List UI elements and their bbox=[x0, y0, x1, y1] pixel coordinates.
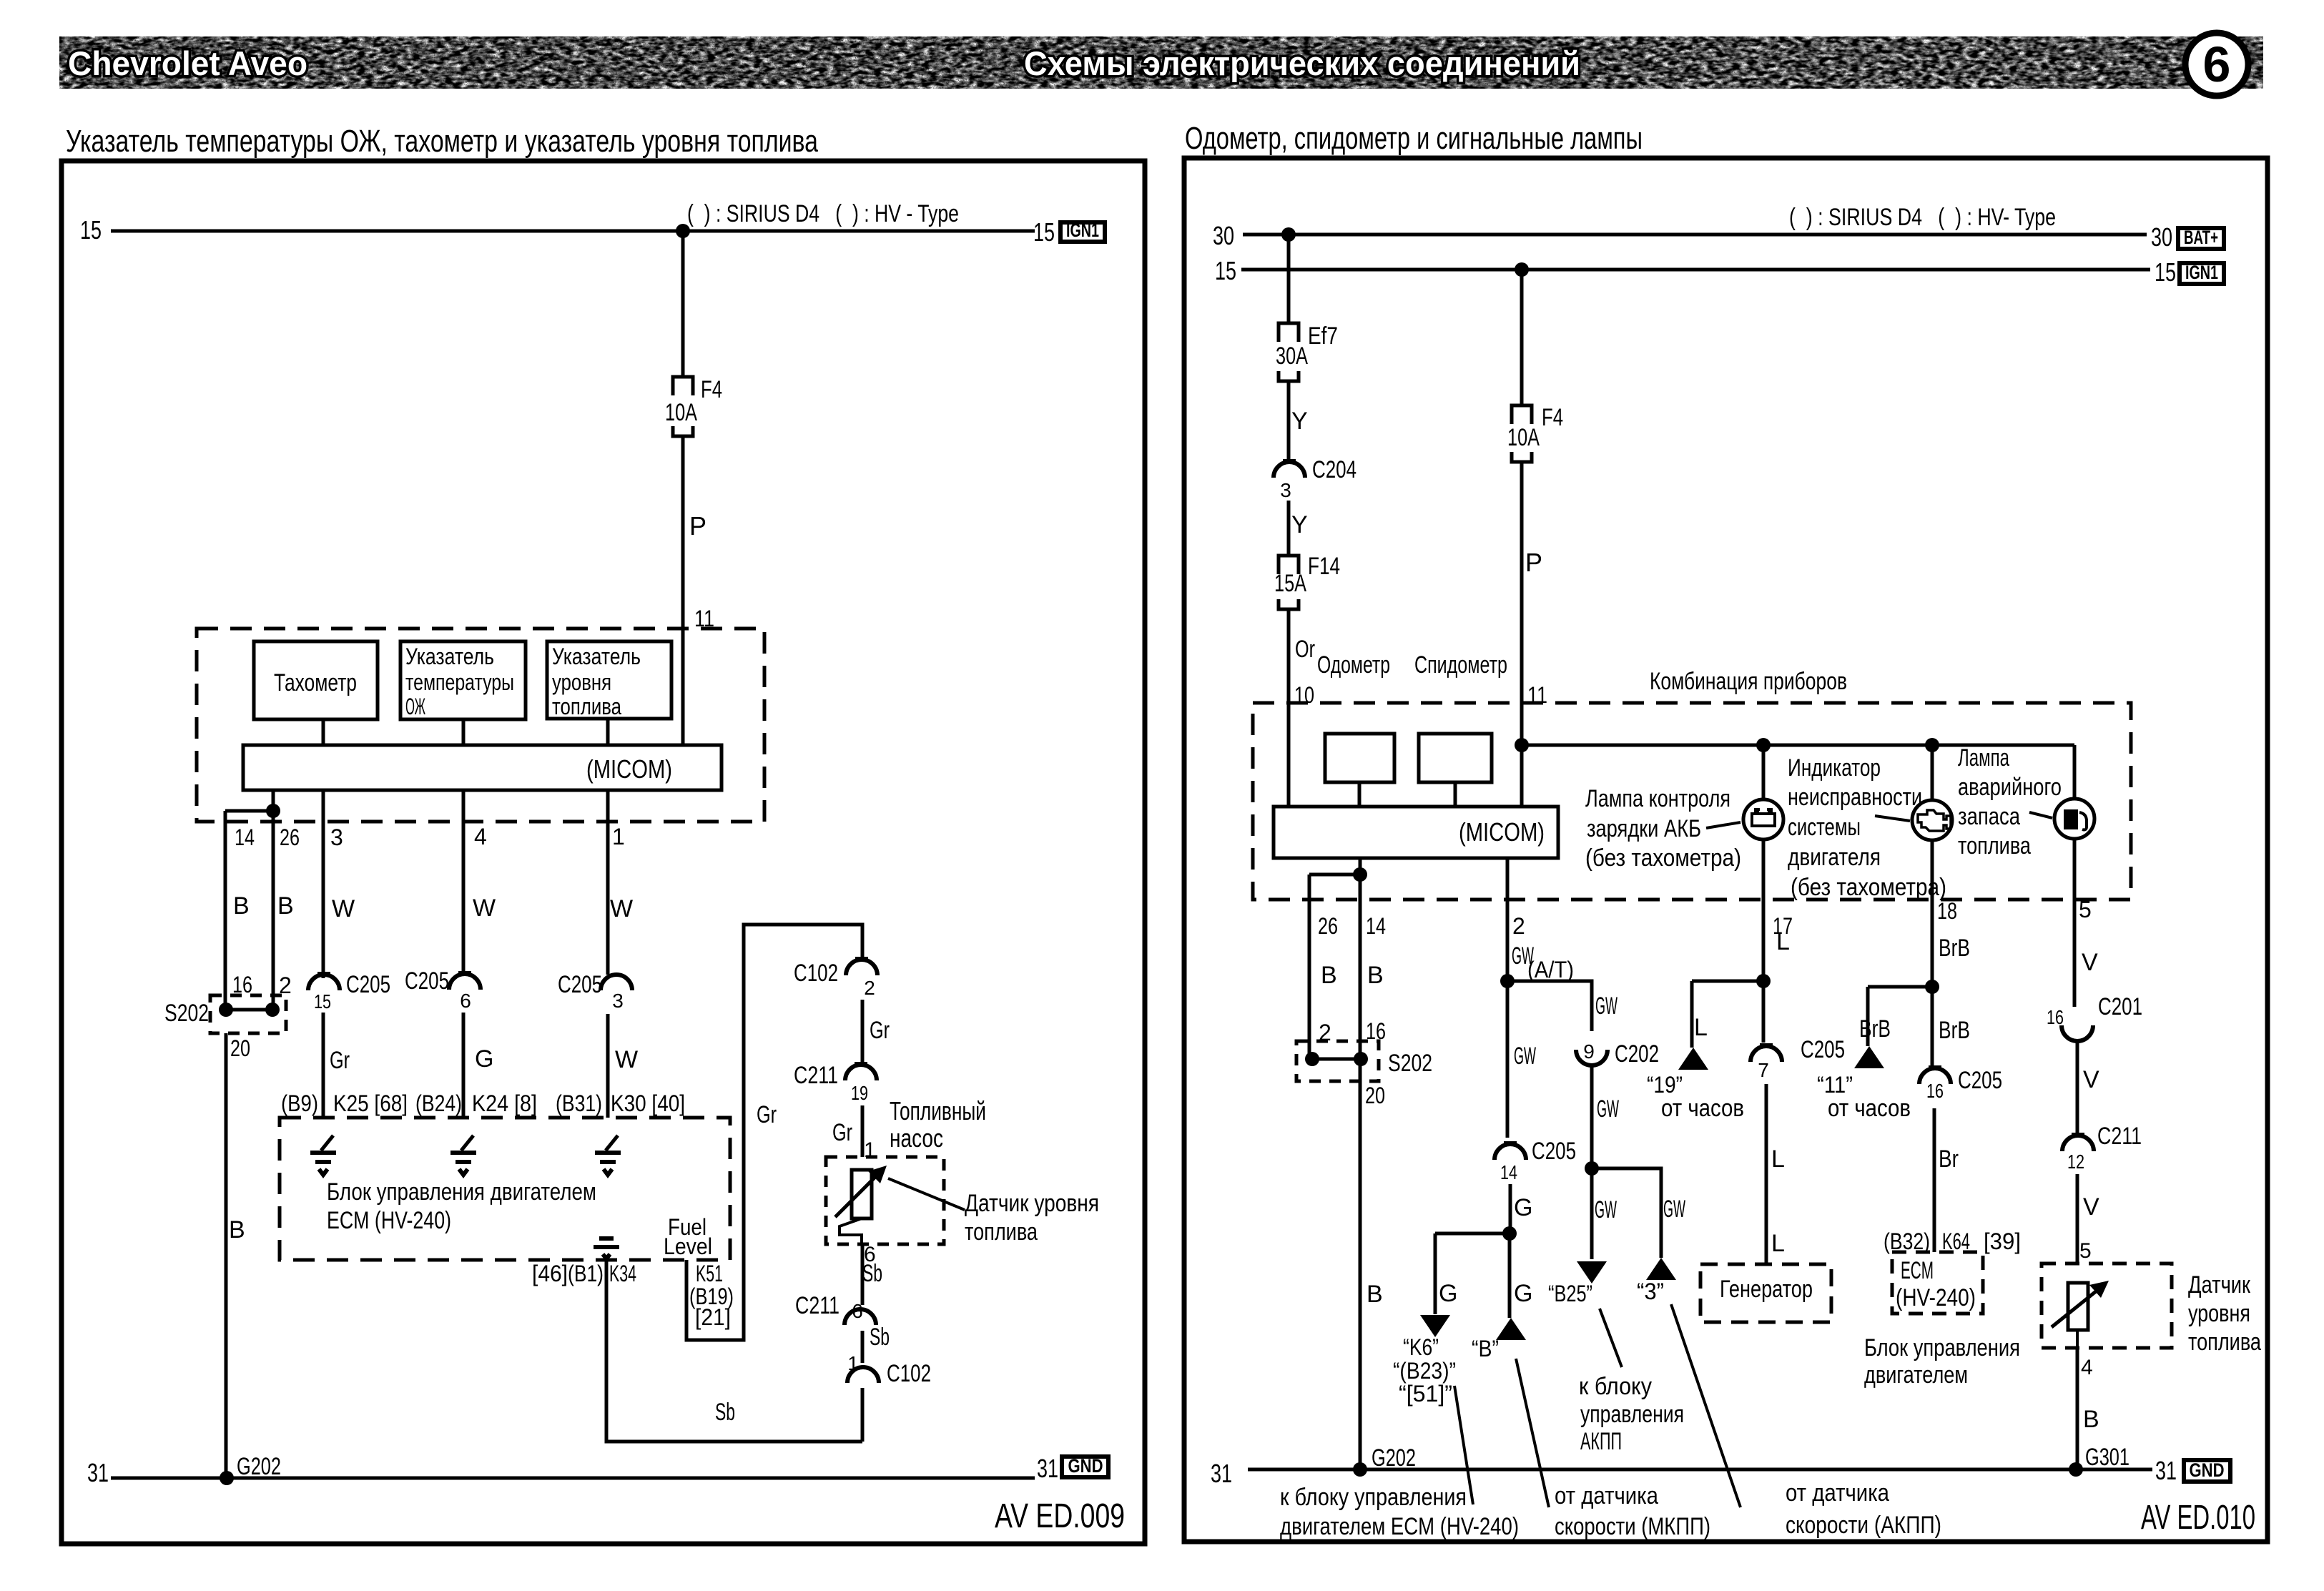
connector C205 pin 6 bbox=[458, 971, 471, 974]
wire micom pin3 bbox=[322, 790, 325, 978]
svg-text:IGN1: IGN1 bbox=[2185, 262, 2218, 283]
connector C205 pin 16 bbox=[1929, 1065, 1941, 1068]
ground node G202 bbox=[220, 1471, 234, 1485]
connector C202 pin 9 bbox=[1576, 1050, 1607, 1065]
fuel sender dashed box right bbox=[2042, 1264, 2172, 1348]
svg-text:двигателя: двигателя bbox=[1788, 844, 1881, 871]
svg-text:31: 31 bbox=[1211, 1459, 1232, 1488]
wire pin 14 down bbox=[224, 811, 227, 1009]
wire to fuel lamp bbox=[2073, 745, 2077, 799]
wire pin 26 right bbox=[1308, 875, 1311, 1059]
right panel border bbox=[1184, 158, 2268, 1542]
wire G to ECM bbox=[462, 1013, 466, 1118]
ground K25 bbox=[321, 1136, 333, 1151]
connector C205 pin 7 bbox=[1760, 1043, 1773, 1046]
svg-text:G: G bbox=[1514, 1194, 1532, 1221]
svg-text:6: 6 bbox=[460, 990, 471, 1012]
svg-text:управления: управления bbox=[1580, 1401, 1684, 1428]
odometer box bbox=[1325, 734, 1394, 782]
svg-text:12: 12 bbox=[2067, 1151, 2084, 1173]
wire B to G301 bbox=[2076, 1348, 2079, 1469]
wire Or to cluster bbox=[1287, 609, 1291, 807]
svg-text:(без тахометра): (без тахометра) bbox=[1585, 844, 1741, 872]
wire Sb between connectors bbox=[861, 1331, 865, 1363]
wire fuel to micom bbox=[606, 719, 610, 745]
svg-text:C205: C205 bbox=[1532, 1138, 1576, 1165]
wire BrB to clock 11 bbox=[1866, 987, 1870, 1046]
jog to pin 26 right bbox=[1309, 873, 1360, 877]
svg-text:5: 5 bbox=[2079, 1239, 2092, 1263]
svg-text:GW: GW bbox=[1663, 1196, 1685, 1223]
connector C211 pin 6 bbox=[845, 1309, 876, 1325]
wire Gr to ECM bbox=[322, 1013, 325, 1118]
svg-text:уровня: уровня bbox=[2188, 1300, 2250, 1327]
svg-text:насос: насос bbox=[890, 1123, 943, 1153]
MICOM box right bbox=[1274, 807, 1558, 858]
svg-text:7: 7 bbox=[1758, 1059, 1769, 1081]
callout line 3 to AT speed sensor caption bbox=[1671, 1304, 1740, 1507]
wire C204 to F14 bbox=[1287, 501, 1291, 556]
fuse Ef7 30A bbox=[1279, 323, 1299, 342]
ground node G202 right bbox=[1353, 1462, 1367, 1477]
svg-text:скорости (АКПП): скорости (АКПП) bbox=[1786, 1512, 1941, 1539]
svg-text:3: 3 bbox=[612, 990, 624, 1012]
svg-text:Тахометр: Тахометр bbox=[274, 669, 357, 696]
svg-text:к блоку: к блоку bbox=[1579, 1373, 1652, 1400]
page number circle 6 bbox=[2185, 33, 2248, 96]
wire GW branch right bbox=[1507, 981, 1592, 1031]
svg-text:Топливный: Топливный bbox=[890, 1096, 986, 1125]
svg-text:( ) : SIRIUS D4 ( ) : HV-: ( ) : SIRIUS D4 ( ) : HV- Type bbox=[1789, 204, 2056, 231]
svg-text:Блок управления двигателем: Блок управления двигателем bbox=[327, 1178, 596, 1206]
wire Sb to return bbox=[861, 1388, 865, 1442]
wire micom pin4 bbox=[462, 790, 466, 974]
svg-text:L: L bbox=[1771, 1146, 1785, 1173]
svg-text:2: 2 bbox=[864, 977, 875, 999]
svg-text:от датчика: от датчика bbox=[1555, 1482, 1658, 1509]
fuse F14 15A bbox=[1279, 556, 1299, 574]
svg-text:C205: C205 bbox=[405, 967, 449, 995]
wire Gr to sender bbox=[861, 1105, 865, 1157]
svg-text:Комбинация приборов: Комбинация приборов bbox=[1650, 668, 1847, 695]
svg-text:“B25”: “B25” bbox=[1548, 1281, 1592, 1306]
wire odometer to micom bbox=[1358, 782, 1362, 807]
svg-text:30A: 30A bbox=[1276, 343, 1308, 370]
svg-text:16: 16 bbox=[232, 972, 252, 998]
wire BrB to C205-16 bbox=[1931, 987, 1934, 1070]
svg-text:Gr: Gr bbox=[870, 1017, 890, 1044]
svg-text:GND: GND bbox=[1068, 1455, 1103, 1477]
svg-text:V: V bbox=[2083, 1066, 2099, 1093]
junction micom out bbox=[266, 804, 280, 818]
svg-text:G301: G301 bbox=[2085, 1444, 2129, 1471]
arrow from MT speed sensor bbox=[1496, 1318, 1526, 1340]
svg-text:26: 26 bbox=[280, 824, 300, 850]
svg-text:C211: C211 bbox=[794, 1062, 838, 1089]
fuse F4 right 10A bbox=[1512, 405, 1532, 424]
svg-text:C205: C205 bbox=[1958, 1067, 2002, 1094]
svg-text:16: 16 bbox=[1926, 1080, 1944, 1102]
svg-text:( ) : SIRIUS D4 ( ) : HV -: ( ) : SIRIUS D4 ( ) : HV - Type bbox=[687, 200, 959, 227]
svg-text:L: L bbox=[1771, 1230, 1785, 1257]
svg-text:ОЖ: ОЖ bbox=[405, 694, 425, 719]
svg-text:GW: GW bbox=[1595, 992, 1618, 1020]
svg-text:аварийного: аварийного bbox=[1958, 774, 2062, 801]
fuel sender dashed box bbox=[826, 1157, 944, 1244]
wire G from MT speed sensor bbox=[1508, 1233, 1512, 1318]
wire bus30 to Ef7 bbox=[1287, 235, 1291, 323]
svg-text:14: 14 bbox=[1500, 1161, 1517, 1183]
wire W to ECM bbox=[606, 1014, 610, 1118]
wire Ef7 to C204 bbox=[1287, 381, 1291, 462]
svg-text:C205: C205 bbox=[346, 971, 390, 998]
wire L to generator bbox=[1765, 1084, 1768, 1264]
svg-text:Gr: Gr bbox=[832, 1119, 852, 1146]
svg-text:GW: GW bbox=[1595, 1196, 1617, 1223]
junction on bus 15 right bbox=[1515, 262, 1529, 277]
svg-text:6: 6 bbox=[852, 1300, 863, 1322]
wire Gr between connectors bbox=[861, 1000, 865, 1063]
svg-text:Датчик: Датчик bbox=[2188, 1271, 2251, 1299]
svg-text:5: 5 bbox=[2079, 897, 2092, 922]
svg-text:(B9): (B9) bbox=[281, 1090, 318, 1116]
svg-text:F4: F4 bbox=[701, 376, 722, 403]
svg-text:Y: Y bbox=[1291, 408, 1308, 435]
ground node G301 bbox=[2069, 1462, 2083, 1477]
svg-text:B: B bbox=[1321, 962, 1337, 989]
wire P right bbox=[1520, 462, 1524, 807]
svg-text:топлива: топлива bbox=[2188, 1329, 2261, 1356]
svg-text:C102: C102 bbox=[794, 960, 838, 987]
svg-text:18: 18 bbox=[1937, 898, 1957, 924]
jog G left bbox=[1435, 1232, 1510, 1236]
connector C205 pin 3 bbox=[601, 975, 632, 990]
svg-text:2: 2 bbox=[279, 972, 292, 998]
svg-text:W: W bbox=[610, 895, 633, 922]
junction on bus 30 bbox=[1281, 227, 1296, 242]
svg-text:Одометр: Одометр bbox=[1317, 651, 1390, 679]
svg-text:W: W bbox=[473, 895, 496, 922]
svg-text:Индикатор: Индикатор bbox=[1788, 754, 1881, 782]
svg-text:S202: S202 bbox=[1388, 1050, 1432, 1077]
junction L bbox=[1756, 974, 1771, 988]
svg-text:Chevrolet Aveo: Chevrolet Aveo bbox=[68, 44, 307, 82]
S202 right bridge bbox=[1312, 1058, 1361, 1061]
svg-text:L: L bbox=[1776, 928, 1790, 955]
svg-text:G: G bbox=[475, 1045, 493, 1073]
svg-text:(HV-240): (HV-240) bbox=[1896, 1284, 1976, 1311]
svg-text:10A: 10A bbox=[665, 399, 697, 426]
svg-text:Sb: Sb bbox=[862, 1260, 882, 1287]
wire to MIL lamp bbox=[1931, 745, 1934, 800]
svg-text:15: 15 bbox=[1215, 256, 1236, 285]
svg-text:19: 19 bbox=[851, 1082, 868, 1104]
wire jog to pin 14 bbox=[225, 809, 273, 813]
svg-text:[21]: [21] bbox=[695, 1304, 731, 1330]
svg-text:Or: Or bbox=[1295, 636, 1315, 663]
svg-text:3: 3 bbox=[1280, 479, 1291, 501]
svg-text:BAT+: BAT+ bbox=[2184, 227, 2218, 248]
svg-text:C102: C102 bbox=[887, 1360, 931, 1387]
svg-text:Спидометр: Спидометр bbox=[1414, 651, 1507, 679]
svg-text:20: 20 bbox=[230, 1035, 250, 1061]
svg-text:(MICOM): (MICOM) bbox=[1459, 817, 1545, 847]
svg-text:15: 15 bbox=[80, 215, 102, 245]
svg-text:температуры: температуры bbox=[405, 669, 514, 695]
svg-text:[39]: [39] bbox=[1984, 1228, 2021, 1254]
svg-text:14: 14 bbox=[235, 824, 255, 850]
svg-text:26: 26 bbox=[1318, 913, 1338, 939]
wire pin 14 right long bbox=[1359, 858, 1362, 1469]
svg-text:W: W bbox=[332, 895, 355, 922]
svg-text:C202: C202 bbox=[1615, 1040, 1659, 1068]
wire pin 18 BrB bbox=[1931, 841, 1934, 987]
junction GW bbox=[1500, 974, 1515, 988]
wire GW to TCM bbox=[1590, 1168, 1594, 1259]
bus 31 (right panel) bbox=[1248, 1468, 2152, 1472]
header band bbox=[59, 36, 2263, 89]
BAT+ tag bbox=[2178, 228, 2224, 249]
MICOM box bbox=[243, 745, 722, 790]
svg-text:топлива: топлива bbox=[1958, 832, 2031, 859]
GND tag right bbox=[2184, 1460, 2230, 1482]
svg-text:3: 3 bbox=[330, 824, 343, 850]
junction G split bbox=[1502, 1226, 1517, 1241]
fuel sender resistor right bbox=[2068, 1283, 2088, 1330]
svg-text:1: 1 bbox=[847, 1352, 859, 1374]
svg-text:IGN1: IGN1 bbox=[1066, 220, 1099, 241]
svg-text:16: 16 bbox=[2047, 1006, 2064, 1028]
svg-text:K30 [40]: K30 [40] bbox=[611, 1090, 685, 1116]
svg-text:15: 15 bbox=[1033, 217, 1055, 247]
connector C201 pin 16 bbox=[2062, 1025, 2093, 1041]
svg-text:S202: S202 bbox=[164, 1000, 209, 1027]
wire Sb from sender bbox=[861, 1244, 865, 1305]
svg-text:B: B bbox=[229, 1216, 245, 1243]
svg-text:“11”: “11” bbox=[1817, 1072, 1853, 1098]
svg-text:Указатель: Указатель bbox=[552, 644, 641, 669]
svg-text:Схемы электрических соединений: Схемы электрических соединений bbox=[1024, 44, 1580, 82]
junction lamp feed bbox=[1515, 738, 1529, 752]
S202 right node bbox=[265, 1003, 280, 1017]
junction lamp 2 bbox=[1925, 738, 1939, 752]
svg-text:G202: G202 bbox=[237, 1453, 281, 1480]
svg-text:Gr: Gr bbox=[330, 1047, 350, 1074]
arrow from AT speed sensor bbox=[1646, 1258, 1676, 1280]
svg-text:31: 31 bbox=[87, 1458, 109, 1487]
svg-text:15: 15 bbox=[314, 990, 331, 1013]
wire L to clock 19 bbox=[1690, 981, 1694, 1048]
jog BrB left bbox=[1868, 985, 1932, 989]
svg-text:(B31): (B31) bbox=[556, 1090, 602, 1116]
svg-text:Лампа контроля: Лампа контроля bbox=[1585, 785, 1730, 812]
connector C102 pin 2 bbox=[855, 957, 868, 960]
connector C204 pin 3 bbox=[1283, 459, 1296, 462]
svg-text:“(B23)”: “(B23)” bbox=[1393, 1358, 1456, 1384]
svg-text:“B”: “B” bbox=[1472, 1336, 1499, 1361]
speedometer box bbox=[1419, 734, 1492, 782]
svg-text:L: L bbox=[1694, 1014, 1708, 1041]
wire K51 to fuel pump bbox=[686, 925, 862, 1340]
engine malfunction lamp bbox=[1912, 800, 1952, 840]
svg-text:топлива: топлива bbox=[552, 694, 621, 719]
svg-text:C205: C205 bbox=[1801, 1036, 1845, 1063]
connector C102 pin 1 bbox=[847, 1367, 879, 1383]
svg-text:(B1): (B1) bbox=[568, 1261, 604, 1286]
wire V to sender right bbox=[2076, 1174, 2079, 1264]
svg-text:AV ED.010: AV ED.010 bbox=[2141, 1499, 2255, 1537]
bus 30 bbox=[1243, 233, 2147, 237]
svg-text:C205: C205 bbox=[558, 971, 602, 998]
wire G to ECM K6 bbox=[1434, 1233, 1437, 1314]
svg-text:30: 30 bbox=[1213, 221, 1234, 250]
arrow from clock 11 bbox=[1854, 1046, 1884, 1068]
wire to battery lamp bbox=[1762, 745, 1766, 799]
wire bus15 to F4 right bbox=[1520, 270, 1524, 405]
svg-text:системы: системы bbox=[1788, 814, 1861, 841]
svg-text:(без тахометра): (без тахометра) bbox=[1791, 874, 1946, 901]
arrow from clock 19 bbox=[1678, 1048, 1708, 1070]
connector C211 pin 12 bbox=[2072, 1133, 2084, 1136]
svg-text:скорости (МКПП): скорости (МКПП) bbox=[1555, 1513, 1710, 1540]
low fuel lamp bbox=[2054, 799, 2094, 839]
svg-text:31: 31 bbox=[1037, 1454, 1058, 1483]
svg-text:10A: 10A bbox=[1507, 424, 1540, 451]
wire GW down to C205-14 bbox=[1506, 981, 1510, 1138]
svg-text:9: 9 bbox=[1583, 1040, 1595, 1063]
svg-text:топлива: топлива bbox=[965, 1218, 1038, 1246]
svg-text:F14: F14 bbox=[1308, 553, 1340, 580]
wire bus15 to fuse F4 bbox=[681, 231, 685, 377]
svg-text:C201: C201 bbox=[2098, 993, 2142, 1020]
svg-text:Ef7: Ef7 bbox=[1308, 322, 1338, 350]
arrow to TCM B25 bbox=[1577, 1261, 1607, 1284]
svg-text:“[51]”: “[51]” bbox=[1399, 1381, 1452, 1407]
ECM dashed box bbox=[280, 1118, 730, 1260]
svg-text:запаса: запаса bbox=[1958, 803, 2020, 830]
S202 right node b bbox=[1354, 1052, 1368, 1066]
svg-text:P: P bbox=[689, 511, 706, 541]
svg-text:2: 2 bbox=[1512, 913, 1525, 939]
wire L to C205-7 bbox=[1762, 981, 1766, 1043]
svg-text:P: P bbox=[1525, 548, 1542, 577]
battery charge lamp bbox=[1743, 799, 1783, 839]
svg-text:неисправности: неисправности bbox=[1788, 784, 1922, 811]
svg-text:Sb: Sb bbox=[870, 1324, 890, 1351]
instrument cluster dashed box right bbox=[1253, 703, 2131, 900]
S202 bridge wire bbox=[226, 1008, 272, 1012]
svg-text:Sb: Sb bbox=[715, 1399, 735, 1426]
svg-text:V: V bbox=[2082, 949, 2098, 976]
ground K34 fuel level bbox=[594, 1238, 619, 1258]
wire GW below C202 bbox=[1590, 1065, 1594, 1168]
svg-text:B: B bbox=[277, 892, 294, 920]
bus 31 (left panel) bbox=[111, 1477, 1035, 1480]
wire K34/Sb return bbox=[606, 1260, 862, 1442]
wire micom pin26 bbox=[272, 790, 275, 1010]
svg-text:K34: K34 bbox=[609, 1261, 636, 1286]
svg-text:(MICOM): (MICOM) bbox=[586, 754, 672, 784]
coolant temp gauge box bbox=[400, 641, 526, 719]
callout line B23 to ECM caption bbox=[1454, 1386, 1473, 1504]
svg-text:двигателем: двигателем bbox=[1864, 1361, 1968, 1389]
svg-text:Указатель: Указатель bbox=[405, 644, 494, 669]
svg-text:Датчик уровня: Датчик уровня bbox=[965, 1190, 1099, 1217]
svg-text:Лампа: Лампа bbox=[1958, 744, 2009, 772]
svg-text:уровня: уровня bbox=[552, 669, 611, 695]
left panel border bbox=[61, 161, 1145, 1544]
junction on bus 15 bbox=[676, 224, 690, 238]
svg-text:ECM (HV-240): ECM (HV-240) bbox=[327, 1207, 451, 1234]
lamp feed wire bbox=[1522, 744, 2074, 747]
svg-text:4: 4 bbox=[2081, 1356, 2093, 1379]
svg-text:“3”: “3” bbox=[1637, 1279, 1664, 1304]
svg-text:от часов: от часов bbox=[1828, 1095, 1911, 1122]
svg-text:“K6”: “K6” bbox=[1403, 1334, 1439, 1360]
wire pin 2 GW bbox=[1506, 858, 1510, 981]
svg-text:2: 2 bbox=[1319, 1020, 1331, 1045]
wire pin 17 L bbox=[1762, 839, 1766, 981]
svg-text:B: B bbox=[2083, 1406, 2099, 1433]
svg-text:B: B bbox=[1367, 1281, 1383, 1308]
svg-text:C204: C204 bbox=[1312, 456, 1357, 483]
wire V between connectors bbox=[2076, 1041, 2079, 1136]
svg-text:BrB: BrB bbox=[1939, 1017, 1970, 1044]
connector C211 pin 19 bbox=[855, 1062, 867, 1065]
svg-text:GW: GW bbox=[1514, 1043, 1536, 1070]
ECM dashed box right bbox=[1892, 1252, 1983, 1314]
svg-text:GW: GW bbox=[1597, 1095, 1619, 1123]
ground K24 bbox=[461, 1136, 473, 1151]
svg-text:C211: C211 bbox=[795, 1292, 840, 1319]
svg-text:[46]: [46] bbox=[532, 1261, 568, 1286]
wire tach to micom bbox=[322, 719, 325, 745]
svg-text:31: 31 bbox=[2155, 1456, 2177, 1485]
bus 15 (right panel) bbox=[1241, 268, 2150, 272]
connector C205 pin 14 bbox=[1504, 1141, 1517, 1144]
svg-text:K24 [8]: K24 [8] bbox=[472, 1090, 537, 1116]
svg-text:Одометр, спидометр и сигнальны: Одометр, спидометр и сигнальные лампы bbox=[1185, 121, 1643, 156]
callout line B to MT speed sensor caption bbox=[1516, 1359, 1549, 1507]
callout line to sender bbox=[888, 1178, 965, 1210]
svg-text:от датчика: от датчика bbox=[1786, 1479, 1889, 1507]
svg-text:30: 30 bbox=[2151, 222, 2172, 252]
svg-text:G: G bbox=[1439, 1280, 1457, 1307]
svg-text:Y: Y bbox=[1291, 511, 1308, 538]
svg-text:K25 [68]: K25 [68] bbox=[333, 1090, 408, 1116]
junction lamp 1 bbox=[1756, 738, 1771, 752]
svg-text:ECM: ECM bbox=[1901, 1257, 1934, 1284]
S202 left node bbox=[219, 1003, 233, 1017]
svg-text:G202: G202 bbox=[1372, 1444, 1416, 1472]
wire speedometer to micom bbox=[1454, 782, 1457, 807]
svg-text:14: 14 bbox=[1366, 913, 1386, 939]
svg-text:GND: GND bbox=[2190, 1459, 2225, 1481]
svg-text:B: B bbox=[233, 892, 250, 920]
svg-text:“19”: “19” bbox=[1647, 1072, 1683, 1098]
arrow to ECM K6 bbox=[1420, 1315, 1450, 1337]
svg-text:AV ED.009: AV ED.009 bbox=[995, 1497, 1125, 1535]
junction GW split bbox=[1585, 1161, 1599, 1176]
S202 right node a bbox=[1305, 1052, 1319, 1066]
svg-text:B: B bbox=[1367, 962, 1384, 989]
svg-text:зарядки АКБ: зарядки АКБ bbox=[1587, 815, 1701, 842]
svg-text:Gr: Gr bbox=[757, 1101, 777, 1128]
fuel sender resistor bbox=[852, 1170, 872, 1218]
wire micom pin1 bbox=[606, 790, 610, 975]
svg-text:G: G bbox=[1514, 1280, 1532, 1307]
GND tag bbox=[1062, 1457, 1108, 1477]
